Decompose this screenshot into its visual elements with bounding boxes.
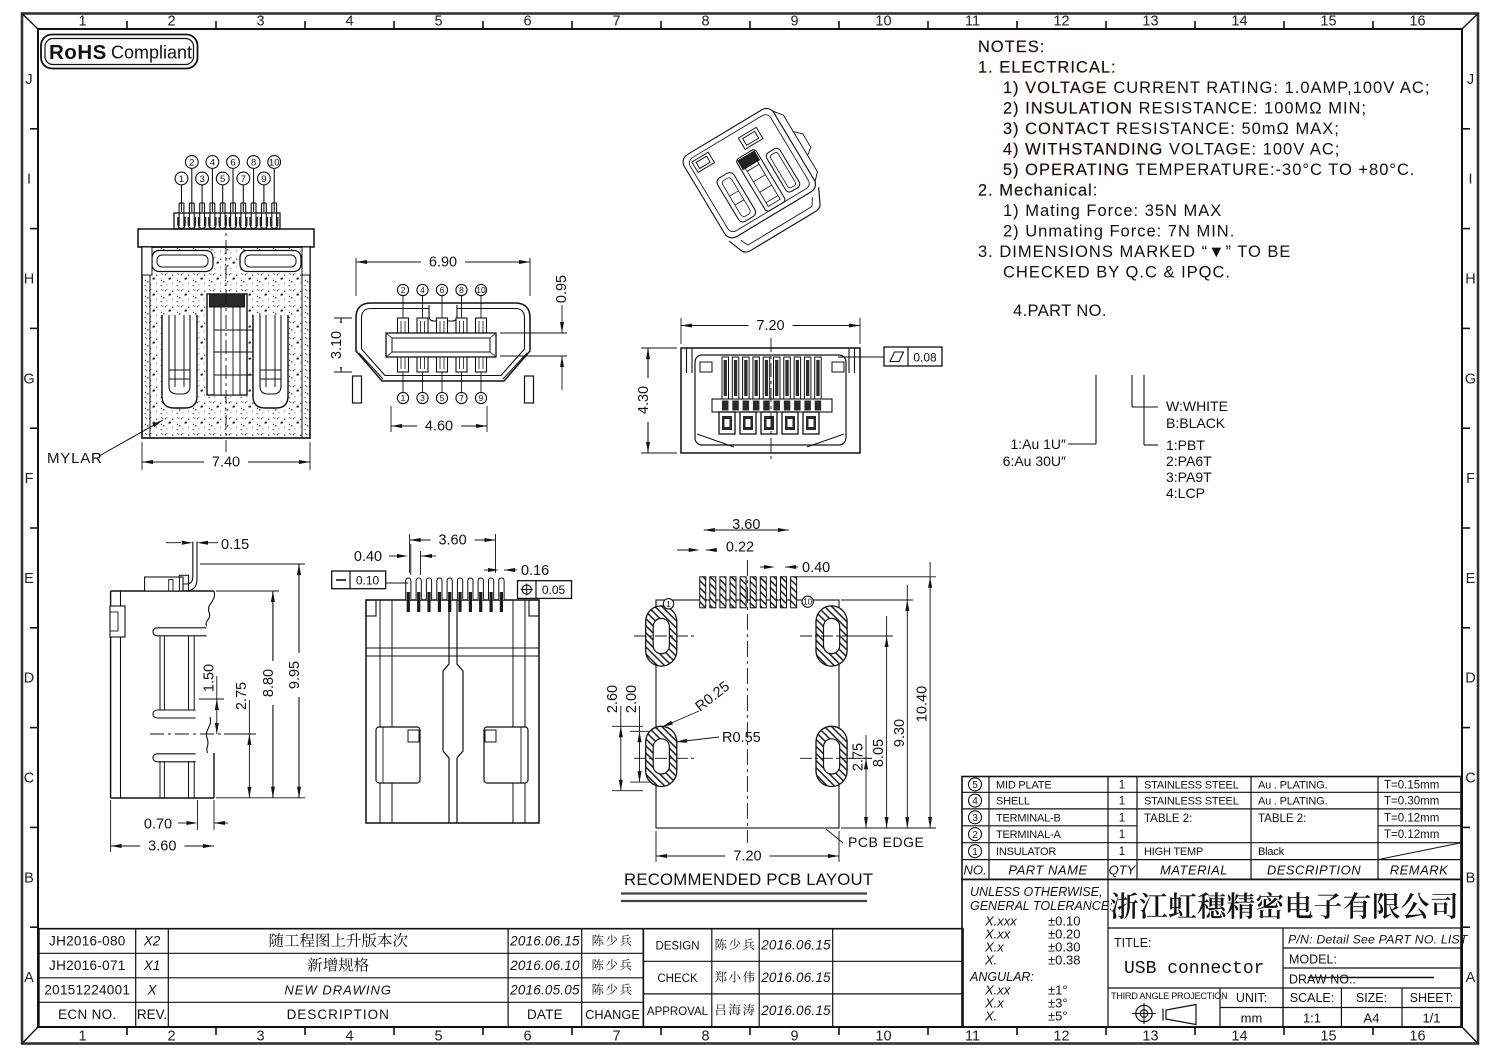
dimension 6.90 xyxy=(355,258,357,296)
dimension 9.95 xyxy=(200,563,305,565)
dimension 0.15 xyxy=(166,542,181,544)
dimension 10.40 xyxy=(793,576,936,578)
svg-text:W:WHITE: W:WHITE xyxy=(1166,398,1228,414)
svg-text:0.15: 0.15 xyxy=(221,537,249,553)
mating view pin callouts bottom xyxy=(402,372,404,392)
svg-text:UNIT:: UNIT: xyxy=(1236,991,1267,1005)
svg-text:HIGH TEMP: HIGH TEMP xyxy=(1144,846,1203,858)
svg-text:T=0.30mm: T=0.30mm xyxy=(1384,796,1439,808)
svg-text:2016.06.15: 2016.06.15 xyxy=(760,938,831,953)
svg-text:2. Mechanical:: 2. Mechanical: xyxy=(978,182,1098,200)
svg-text:SIZE:: SIZE: xyxy=(1356,991,1387,1005)
front view cap xyxy=(138,229,314,247)
svg-text:X.: X. xyxy=(984,1009,997,1024)
svg-text:9.30: 9.30 xyxy=(892,719,908,747)
svg-text:3) CONTACT RESISTANCE: 50mΩ MA: 3) CONTACT RESISTANCE: 50mΩ MAX; xyxy=(1003,120,1340,138)
parts list table xyxy=(962,777,1461,880)
svg-text:12: 12 xyxy=(1053,1029,1069,1045)
svg-text:MID PLATE: MID PLATE xyxy=(996,779,1051,791)
svg-text:1) Mating Force: 35N MAX: 1) Mating Force: 35N MAX xyxy=(1003,202,1222,220)
svg-text:2:PA6T: 2:PA6T xyxy=(1166,453,1212,469)
svg-text:16: 16 xyxy=(1409,1029,1425,1045)
svg-text:Au . PLATING.: Au . PLATING. xyxy=(1258,779,1327,791)
svg-text:3: 3 xyxy=(972,813,978,824)
svg-text:15: 15 xyxy=(1320,14,1336,30)
dimension 2.75 pcb xyxy=(849,757,872,759)
svg-text:3.60: 3.60 xyxy=(148,839,176,855)
dimension 4.30 xyxy=(641,347,677,349)
svg-text:0.95: 0.95 xyxy=(554,275,570,303)
svg-text:11: 11 xyxy=(965,14,980,30)
back view small side bumps xyxy=(700,362,712,372)
svg-text:1: 1 xyxy=(401,393,406,403)
dimension 0.16 xyxy=(484,569,496,571)
svg-text:R0.55: R0.55 xyxy=(722,730,761,746)
svg-text:A: A xyxy=(1466,970,1476,986)
dimension 2.60 xyxy=(612,725,643,727)
svg-text:PART NAME: PART NAME xyxy=(1008,863,1087,878)
svg-text:mm: mm xyxy=(1241,1011,1263,1026)
svg-text:1:Au 1U″: 1:Au 1U″ xyxy=(1010,436,1066,452)
svg-text:2016.06.10: 2016.06.10 xyxy=(509,958,580,973)
svg-text:10: 10 xyxy=(875,14,891,30)
svg-text:STAINLESS STEEL: STAINLESS STEEL xyxy=(1144,796,1239,808)
bottom view pins xyxy=(406,578,411,600)
bottom view xyxy=(366,600,539,823)
svg-text:0.22: 0.22 xyxy=(726,540,754,556)
svg-text:1. ELECTRICAL:: 1. ELECTRICAL: xyxy=(978,59,1117,77)
svg-text:B:BLACK: B:BLACK xyxy=(1166,415,1226,431)
svg-text:MYLAR: MYLAR xyxy=(47,450,103,467)
svg-text:5: 5 xyxy=(434,1029,442,1045)
profile left wall clip xyxy=(110,606,125,637)
svg-text:8: 8 xyxy=(459,285,464,295)
back view inner body xyxy=(695,355,846,445)
notes text block xyxy=(978,39,1045,57)
bottom view inner walls xyxy=(379,600,381,823)
svg-text:6:Au 30U″: 6:Au 30U″ xyxy=(1003,453,1066,469)
svg-text:RECOMMENDED PCB LAYOUT: RECOMMENDED PCB LAYOUT xyxy=(624,870,873,889)
pcb solder pins xyxy=(700,577,706,608)
svg-text:MODEL:: MODEL: xyxy=(1289,953,1337,967)
svg-text:2) INSULATION RESISTANCE: 100M: 2) INSULATION RESISTANCE: 100MΩ MIN; xyxy=(1003,100,1367,118)
svg-text:DESIGN: DESIGN xyxy=(655,941,699,953)
svg-text:3.60: 3.60 xyxy=(732,517,760,533)
svg-text:10: 10 xyxy=(476,285,486,295)
svg-text:X2: X2 xyxy=(143,934,161,949)
svg-text:0.40: 0.40 xyxy=(354,549,382,565)
svg-text:1:PBT: 1:PBT xyxy=(1166,437,1205,453)
approval table xyxy=(643,929,963,1027)
svg-text:J: J xyxy=(1467,72,1474,88)
svg-text:2: 2 xyxy=(167,14,175,30)
svg-text:2.00: 2.00 xyxy=(624,685,640,713)
svg-text:7: 7 xyxy=(612,14,620,30)
svg-text:TERMINAL-B: TERMINAL-B xyxy=(996,812,1061,824)
svg-text:2: 2 xyxy=(972,830,978,841)
svg-text:20151224001: 20151224001 xyxy=(44,983,130,998)
svg-text:REMARK: REMARK xyxy=(1390,863,1449,878)
svg-text:E: E xyxy=(1466,571,1476,587)
mating view lower contacts xyxy=(398,357,409,372)
svg-text:5: 5 xyxy=(220,174,225,185)
svg-text:1: 1 xyxy=(179,174,184,185)
svg-text:D: D xyxy=(1465,671,1475,687)
svg-text:4.60: 4.60 xyxy=(425,419,453,435)
svg-text:2.60: 2.60 xyxy=(605,685,621,713)
svg-text:0.70: 0.70 xyxy=(144,817,172,833)
svg-text:DATE: DATE xyxy=(527,1007,563,1022)
svg-text:14: 14 xyxy=(1231,14,1247,30)
svg-text:DESCRIPTION: DESCRIPTION xyxy=(1267,863,1361,878)
svg-text:2: 2 xyxy=(401,285,406,295)
company name cell xyxy=(1107,879,1109,1027)
svg-text:10: 10 xyxy=(875,1029,891,1045)
svg-text:0.05: 0.05 xyxy=(542,583,566,597)
svg-text:6: 6 xyxy=(440,285,445,295)
svg-text:X: X xyxy=(146,983,157,998)
svg-text:I: I xyxy=(1468,172,1472,188)
svg-text:SHELL: SHELL xyxy=(996,796,1030,808)
svg-text:7.20: 7.20 xyxy=(756,318,784,334)
front view center contact tower xyxy=(207,294,247,395)
svg-text:10: 10 xyxy=(269,157,280,168)
svg-text:8.80: 8.80 xyxy=(261,669,277,697)
svg-text:Compliant: Compliant xyxy=(111,43,192,63)
svg-text:2: 2 xyxy=(167,1029,175,1045)
svg-text:12: 12 xyxy=(1053,14,1069,30)
svg-text:9: 9 xyxy=(790,14,798,30)
side profile view xyxy=(110,591,112,798)
svg-text:2016.06.15: 2016.06.15 xyxy=(760,1003,831,1018)
svg-text:4: 4 xyxy=(210,157,215,168)
dimension 9.30 xyxy=(841,599,913,601)
svg-text:CHECKED BY Q.C & IPQC.: CHECKED BY Q.C & IPQC. xyxy=(1003,264,1231,282)
perspective view of connector xyxy=(680,98,841,257)
dimension 0.22 xyxy=(677,549,697,551)
svg-text:±0.38: ±0.38 xyxy=(1048,953,1080,968)
svg-text:3: 3 xyxy=(420,393,425,403)
recommended PCB layout xyxy=(656,600,839,828)
pcb centerlines xyxy=(746,560,748,843)
svg-text:JH2016-071: JH2016-071 xyxy=(49,958,126,973)
svg-text:X1: X1 xyxy=(143,958,161,973)
svg-text:TERMINAL-A: TERMINAL-A xyxy=(996,829,1061,841)
bottom view corner tabs xyxy=(366,600,376,616)
svg-text:1:1: 1:1 xyxy=(1303,1011,1321,1026)
svg-text:7: 7 xyxy=(459,393,464,403)
svg-text:3: 3 xyxy=(256,1029,264,1045)
svg-text:B: B xyxy=(24,870,34,886)
svg-text:7.40: 7.40 xyxy=(212,455,240,471)
svg-text:SHEET:: SHEET: xyxy=(1410,991,1454,1005)
svg-text:15: 15 xyxy=(1320,1029,1336,1045)
dimension 7.20 back view xyxy=(680,318,682,344)
svg-text:0.10: 0.10 xyxy=(356,574,380,588)
svg-text:ECN NO.: ECN NO. xyxy=(58,1007,116,1022)
svg-text:13: 13 xyxy=(1142,14,1158,30)
border corner diagonals xyxy=(22,14,38,30)
svg-text:TABLE 2:: TABLE 2: xyxy=(1144,813,1192,825)
svg-text:3.60: 3.60 xyxy=(438,533,466,549)
svg-text:QTY: QTY xyxy=(1109,863,1137,878)
svg-text:13: 13 xyxy=(1142,1029,1158,1045)
svg-text:UNLESS OTHERWISE,: UNLESS OTHERWISE, xyxy=(970,885,1102,899)
svg-text:7: 7 xyxy=(241,174,246,185)
svg-text:3. DIMENSIONS MARKED “▼” TO BE: 3. DIMENSIONS MARKED “▼” TO BE xyxy=(978,243,1291,261)
profile broken right edge bottom xyxy=(206,717,210,753)
front view body with mylar stipple xyxy=(142,247,310,438)
svg-text:A4: A4 xyxy=(1364,1011,1380,1026)
svg-text:2016.06.15: 2016.06.15 xyxy=(509,934,580,949)
pcb pad bottom-right xyxy=(816,726,847,786)
svg-text:1.50: 1.50 xyxy=(202,664,218,692)
back view with 7.20 and 4.30 dims xyxy=(681,348,860,453)
dimension 1.50 xyxy=(216,676,218,734)
svg-text:3.10: 3.10 xyxy=(329,331,345,359)
pcb pad top-right xyxy=(816,606,847,666)
svg-text:X.: X. xyxy=(984,953,997,968)
datum flag 0.10 xyxy=(386,582,408,584)
svg-text:10.40: 10.40 xyxy=(915,686,931,722)
svg-text:11: 11 xyxy=(965,1029,980,1045)
svg-text:C: C xyxy=(24,771,34,787)
svg-text:JH2016-080: JH2016-080 xyxy=(49,934,126,949)
svg-text:GENERAL TOLERANCE:: GENERAL TOLERANCE: xyxy=(970,899,1113,913)
svg-text:8.05: 8.05 xyxy=(871,739,887,767)
svg-text:9: 9 xyxy=(261,174,266,185)
svg-text:T=0.12mm: T=0.12mm xyxy=(1384,829,1439,841)
svg-text:NOTES:: NOTES: xyxy=(978,38,1045,56)
svg-text:H: H xyxy=(24,272,34,288)
svg-text:4:LCP: 4:LCP xyxy=(1166,485,1205,501)
svg-text:2016.06.15: 2016.06.15 xyxy=(760,970,831,985)
svg-text:NEW DRAWING: NEW DRAWING xyxy=(284,983,392,998)
bottom view latch windows xyxy=(376,727,420,783)
svg-text:RoHS: RoHS xyxy=(49,41,107,64)
dimension 0.40 pcb xyxy=(760,566,772,568)
dimension 2.75 profile xyxy=(248,700,250,798)
back view corner posts xyxy=(686,348,688,373)
dimension 3.10 xyxy=(334,317,352,319)
mating view pin callouts top xyxy=(402,296,404,318)
cone symbol xyxy=(1166,1005,1196,1025)
svg-text:3: 3 xyxy=(256,14,264,30)
remark cell diagonal xyxy=(1378,843,1461,860)
svg-text:H: H xyxy=(1465,272,1475,288)
svg-text:4: 4 xyxy=(345,1029,353,1045)
svg-text:INSULATOR: INSULATOR xyxy=(996,846,1056,858)
svg-text:T=0.12mm: T=0.12mm xyxy=(1384,812,1439,824)
svg-text:1: 1 xyxy=(1119,812,1125,824)
profile centerline xyxy=(150,733,226,735)
dimension 3.60 bottom view xyxy=(409,534,411,573)
svg-text:1: 1 xyxy=(1119,846,1125,858)
svg-text:14: 14 xyxy=(1231,1029,1247,1045)
svg-text:I: I xyxy=(27,172,31,188)
svg-text:CHANGE: CHANGE xyxy=(585,1007,640,1022)
svg-text:F: F xyxy=(1466,471,1475,487)
mating view tongue xyxy=(386,333,496,357)
center top notch xyxy=(429,305,457,321)
svg-text:2.75: 2.75 xyxy=(851,743,867,771)
svg-text:APPROVAL: APPROVAL xyxy=(647,1006,709,1018)
svg-text:1: 1 xyxy=(78,14,86,30)
svg-text:Black: Black xyxy=(1258,846,1285,858)
svg-text:8: 8 xyxy=(701,14,709,30)
svg-text:E: E xyxy=(24,571,34,587)
profile upper contact beam xyxy=(153,628,207,636)
svg-text:5: 5 xyxy=(434,14,442,30)
svg-text:16: 16 xyxy=(1409,14,1425,30)
svg-text:USB connector: USB connector xyxy=(1124,959,1264,979)
svg-text:5) OPERATING TEMPERATURE:-30°C: 5) OPERATING TEMPERATURE:-30°C TO +80°C. xyxy=(1003,161,1415,179)
pcb pad bottom-left xyxy=(646,726,677,786)
front view top slots xyxy=(152,251,213,272)
svg-text:6: 6 xyxy=(523,14,531,30)
front view pin number callouts xyxy=(191,169,193,212)
front view right spring contact xyxy=(253,315,288,408)
flatness tolerance 0.08 xyxy=(838,356,884,358)
svg-text:9: 9 xyxy=(790,1029,798,1045)
profile lower contact beam xyxy=(153,754,196,762)
svg-text:6: 6 xyxy=(230,157,235,168)
svg-text:STAINLESS STEEL: STAINLESS STEEL xyxy=(1144,779,1239,791)
svg-text:THIRD ANGLE PROJECTION: THIRD ANGLE PROJECTION xyxy=(1111,991,1227,1001)
svg-text:9.95: 9.95 xyxy=(287,661,303,689)
svg-text:P/N: Detail See PART NO. LIST: P/N: Detail See PART NO. LIST xyxy=(1288,933,1469,947)
svg-text:2.75: 2.75 xyxy=(234,682,250,710)
svg-text:1/1: 1/1 xyxy=(1422,1011,1440,1026)
mating view upper contacts xyxy=(398,318,409,333)
svg-text:1: 1 xyxy=(666,599,671,609)
svg-text:PCB EDGE: PCB EDGE xyxy=(848,834,924,850)
svg-text:2: 2 xyxy=(189,157,194,168)
svg-text:6.90: 6.90 xyxy=(429,255,457,271)
svg-text:A: A xyxy=(24,970,34,986)
pcb pad top-left xyxy=(646,606,677,666)
svg-text:NO.: NO. xyxy=(963,863,986,878)
svg-text:0.16: 0.16 xyxy=(521,563,549,579)
svg-text:4: 4 xyxy=(420,285,425,295)
svg-text:8: 8 xyxy=(701,1029,709,1045)
dimension 0.95 xyxy=(500,332,567,334)
svg-text:1) VOLTAGE CURRENT RATING: 1.0: 1) VOLTAGE CURRENT RATING: 1.0AMP,100V A… xyxy=(1003,79,1430,97)
svg-text:DESCRIPTION: DESCRIPTION xyxy=(287,1007,390,1022)
pcb pin callouts 1 and 10 xyxy=(663,599,673,609)
svg-text:4.PART NO.: 4.PART NO. xyxy=(1013,302,1107,320)
svg-text:9: 9 xyxy=(479,393,484,403)
projection symbol cell xyxy=(1108,987,1283,989)
title block xyxy=(962,879,1461,1027)
svg-text:4.30: 4.30 xyxy=(636,386,652,414)
dimension 0.70 xyxy=(197,800,199,830)
svg-text:Au . PLATING.: Au . PLATING. xyxy=(1258,796,1327,808)
svg-text:5: 5 xyxy=(440,393,445,403)
svg-text:REV.: REV. xyxy=(137,1007,167,1022)
svg-text:2) Unmating Force: 7N MIN.: 2) Unmating Force: 7N MIN. xyxy=(1003,223,1235,241)
svg-text:1: 1 xyxy=(1119,779,1125,791)
svg-text:4: 4 xyxy=(972,796,978,807)
dimension 3.60 profile xyxy=(110,800,112,852)
svg-text:G: G xyxy=(23,371,34,387)
svg-text:3: 3 xyxy=(199,174,204,185)
back view centerline xyxy=(770,338,772,463)
dimension 2.00 xyxy=(630,730,650,732)
svg-text:1: 1 xyxy=(1119,829,1125,841)
svg-text:J: J xyxy=(25,72,32,88)
svg-text:C: C xyxy=(1465,771,1475,787)
svg-text:D: D xyxy=(24,671,34,687)
front view pin leads xyxy=(174,213,280,229)
profile top hook (0.15 tab) xyxy=(183,542,193,585)
svg-text:B: B xyxy=(1466,870,1476,886)
front view centerline xyxy=(225,215,227,452)
svg-text:7: 7 xyxy=(612,1029,620,1045)
svg-text:±5°: ±5° xyxy=(1048,1009,1068,1024)
svg-text:CHECK: CHECK xyxy=(657,973,698,985)
mating view mounting legs xyxy=(353,376,362,403)
svg-text:1: 1 xyxy=(78,1029,86,1045)
svg-text:F: F xyxy=(25,471,34,487)
datum flag 0.05 xyxy=(518,581,572,599)
title cell xyxy=(1282,928,1284,1027)
dimension 3.60 pcb xyxy=(704,529,789,531)
svg-text:1: 1 xyxy=(1119,796,1125,808)
svg-text:2016.05.05: 2016.05.05 xyxy=(509,983,580,998)
svg-text:3:PA9T: 3:PA9T xyxy=(1166,469,1212,485)
svg-text:T=0.15mm: T=0.15mm xyxy=(1384,779,1439,791)
dimension 8.05 xyxy=(849,635,893,637)
dimension 4.60 xyxy=(390,406,392,432)
RoHS Compliant badge xyxy=(41,35,198,69)
back view contact comb xyxy=(722,357,729,399)
svg-text:TABLE 2:: TABLE 2: xyxy=(1258,813,1306,825)
svg-text:10: 10 xyxy=(803,598,812,607)
dimension 7.20 pcb xyxy=(655,831,657,862)
svg-text:0.08: 0.08 xyxy=(913,351,937,365)
svg-text:7.20: 7.20 xyxy=(733,849,761,865)
svg-text:5: 5 xyxy=(972,780,978,791)
svg-text:4: 4 xyxy=(345,14,353,30)
profile broken right edge top xyxy=(206,591,215,626)
svg-text:TITLE:: TITLE: xyxy=(1114,936,1152,950)
svg-text:DRAW NO.:: DRAW NO.: xyxy=(1289,973,1356,987)
svg-text:SCALE:: SCALE: xyxy=(1290,991,1334,1005)
mating face view xyxy=(356,303,530,381)
svg-text:8: 8 xyxy=(251,157,256,168)
svg-text:6: 6 xyxy=(523,1029,531,1045)
svg-text:4) WITHSTANDING VOLTAGE: 100V: 4) WITHSTANDING VOLTAGE: 100V AC; xyxy=(1003,141,1340,159)
pcb edge label xyxy=(826,829,843,843)
revision table xyxy=(39,929,643,1027)
svg-text:MATERIAL: MATERIAL xyxy=(1160,863,1228,878)
svg-text:1: 1 xyxy=(972,847,978,858)
svg-text:G: G xyxy=(1465,371,1476,387)
svg-text:0.40: 0.40 xyxy=(802,560,830,576)
front view left spring contact xyxy=(162,315,197,408)
bottom view center channel xyxy=(443,600,449,823)
dimension 8.80 xyxy=(216,590,279,592)
dimension 7.40 xyxy=(141,442,143,470)
